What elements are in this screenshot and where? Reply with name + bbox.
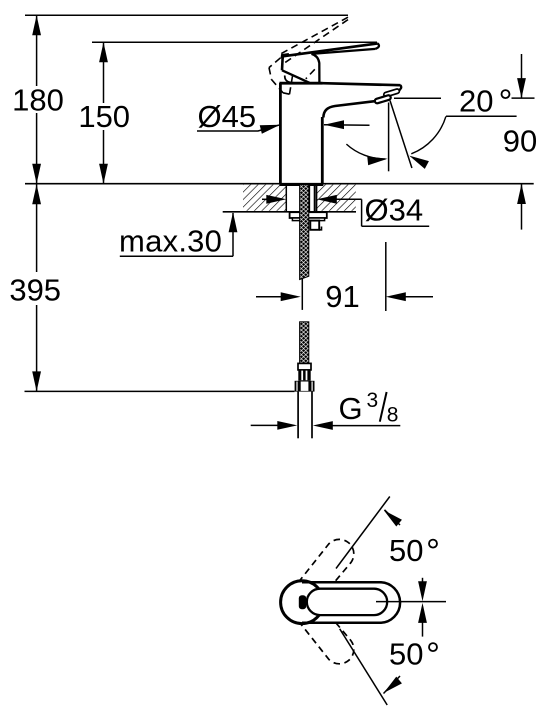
lever base left edge [281,56,284,70]
pupil [299,595,306,609]
dashed base right edge [290,74,293,95]
svg-text:max.30: max.30 [119,224,222,259]
dashed lever up 50 [300,539,354,597]
upper tilt line [336,497,390,569]
counter bottom line [223,211,356,213]
hatch left band [243,185,286,211]
pipe [297,392,299,439]
aerator upper ring [374,88,400,103]
hatch right band [317,185,356,211]
blade underside and neck [312,49,376,83]
hose fitting [298,370,310,381]
spout top edge [323,83,401,85]
svg-text:50°: 50° [389,533,440,572]
shank tube end [310,221,319,230]
150 extension line [92,41,377,43]
braided hose 2 [300,322,309,364]
body top line [279,82,322,85]
svg-text:8: 8 [387,404,399,427]
dashed neck [306,69,315,79]
braided hose 1 [300,185,309,280]
lower 50 small arrow at centerline [422,607,424,637]
180 top extension line [25,14,348,16]
body bottom thick line [279,183,323,186]
upper 50 arrow on line [385,510,401,525]
svg-text:Ø34: Ø34 [365,192,424,227]
aerator lower ring [374,95,391,104]
svg-text:Ø45: Ø45 [198,99,257,134]
svg-text:90: 90 [503,124,537,159]
ferrule [298,363,311,370]
nut band [292,218,324,221]
centerline [376,601,446,603]
spout tip cut [398,85,402,92]
svg-text:150: 150 [78,99,130,134]
upper 50 small arrow at centerline [422,578,424,596]
blade top edge [283,43,378,56]
washer [290,212,327,218]
dashed base bottom edge [272,80,284,93]
svg-text:50°: 50° [389,636,440,675]
shank tube walls [308,186,310,212]
svg-text:395: 395 [9,272,61,307]
body right edge [321,117,324,184]
dashed blade bottom [284,20,348,64]
shank hole edges [285,184,287,211]
dashed base bottom-right edge [283,93,290,94]
body circle [281,581,324,624]
dashed blade top [281,17,349,54]
dashed lever down 50 [300,606,354,664]
outer stadium [302,582,400,623]
lever tip [376,43,379,49]
svg-text:G: G [339,391,363,426]
svg-text:91: 91 [325,279,359,314]
body left edge [279,83,282,184]
dashed base top-left edge [269,58,281,68]
lever base corner thick [282,55,289,59]
lever base bottom arc [285,76,294,83]
dashed base left edge [269,68,272,80]
lever base bottom edge [282,70,310,83]
svg-text:180: 180 [12,83,64,118]
connection nut [295,381,315,392]
lower 50 arrow on line [384,676,401,694]
counter top line [25,183,534,185]
stream reference lines [388,103,390,172]
spout underside [323,101,376,118]
inner stadium [307,589,387,615]
svg-text:3: 3 [367,389,379,412]
lower tilt line [340,629,388,705]
